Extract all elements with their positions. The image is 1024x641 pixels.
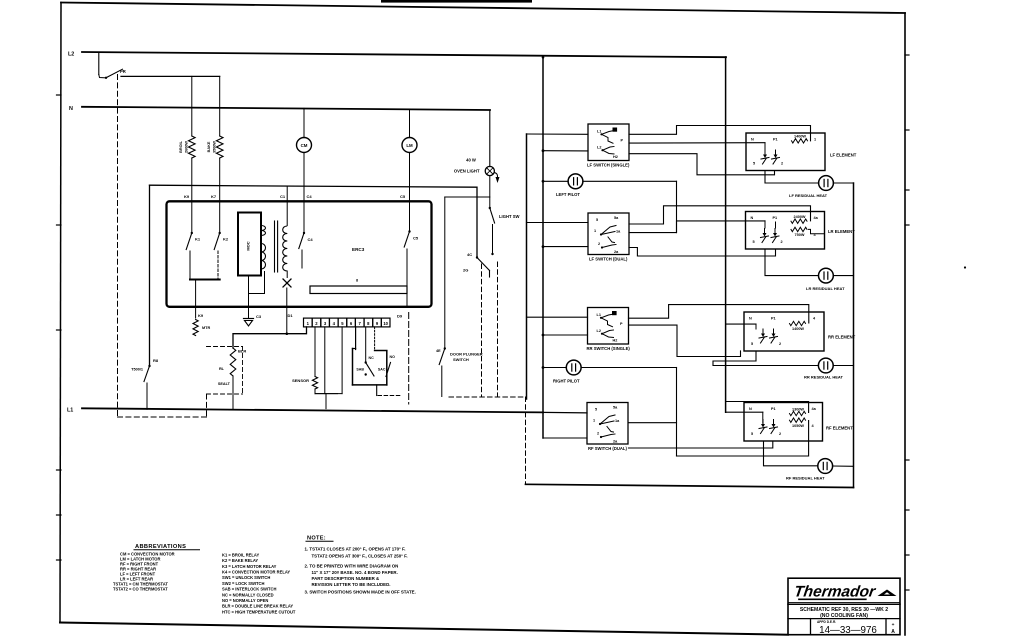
wire E2 pin4 xyxy=(809,229,825,233)
svg-text:SENSOR: SENSOR xyxy=(292,378,309,383)
svg-text:ABBREVIATIONS: ABBREVIATIONS xyxy=(135,544,186,550)
svg-text:L2: L2 xyxy=(597,146,601,150)
wire strip terminal 2 to sensor xyxy=(314,327,316,377)
svg-text:K3 = LATCH MOTOR RELAY: K3 = LATCH MOTOR RELAY xyxy=(222,564,277,569)
svg-text:C1: C1 xyxy=(280,194,286,199)
dashed chassis boundary left xyxy=(117,75,119,418)
switch S3 RR SWITCH (SINGLE) xyxy=(588,308,629,345)
svg-text:REVISION LETTER TO BE INCLUDED: REVISION LETTER TO BE INCLUDED. xyxy=(312,582,391,587)
svg-text:BROIL: BROIL xyxy=(179,140,183,152)
wire S1 entry L1 xyxy=(527,133,589,135)
svg-text:SW2 = LOCK SWITCH: SW2 = LOCK SWITCH xyxy=(222,581,264,586)
wire strip terminal 1 to BLR xyxy=(233,327,307,348)
wire lamp to light switch xyxy=(489,176,491,208)
wire S1 entry L2 xyxy=(542,149,545,152)
svg-text:SW1 = UNLOCK SWITCH: SW1 = UNLOCK SWITCH xyxy=(222,575,270,580)
svg-text:CM: CM xyxy=(301,143,308,148)
svg-text:DOOR PLUNGER: DOOR PLUNGER xyxy=(450,352,483,357)
svg-text:NC = NORMALLY CLOSED: NC = NORMALLY CLOSED xyxy=(222,592,274,597)
svg-text:RR RESIDUAL HEAT: RR RESIDUAL HEAT xyxy=(804,375,844,380)
wire S4 entry 2 xyxy=(543,437,587,439)
relay BLR coil xyxy=(230,348,236,376)
element E1 LF ELEMENT xyxy=(746,133,825,171)
wire bottom residual bus xyxy=(526,484,854,487)
top edge dark bar xyxy=(381,0,532,3)
sheet border frame xyxy=(61,3,905,14)
svg-text:MTR: MTR xyxy=(202,326,210,330)
wire E1 to residual heat xyxy=(765,171,819,184)
svg-text:C5: C5 xyxy=(413,236,419,241)
svg-text:TSTAT2 = CO THERMOSTAT: TSTAT2 = CO THERMOSTAT xyxy=(113,586,168,591)
lamp RF RESIDUAL HEAT xyxy=(818,459,833,474)
svg-text:PART DESCRIPTION NUMBER &: PART DESCRIPTION NUMBER & xyxy=(312,576,381,581)
wire E2 to residual heat xyxy=(765,249,819,276)
svg-text:2: 2 xyxy=(779,432,781,436)
wire E2 P1 riser xyxy=(775,222,777,228)
svg-text:RF SWITCH (DUAL): RF SWITCH (DUAL) xyxy=(588,446,627,451)
relay contact C5 xyxy=(408,230,410,232)
wire S1 H to element xyxy=(629,126,811,141)
svg-text:2: 2 xyxy=(779,342,781,346)
wire L2 drop to relay PR xyxy=(98,52,100,74)
svg-text:5: 5 xyxy=(751,432,753,436)
svg-text:2400W: 2400W xyxy=(793,215,805,219)
svg-text:C4: C4 xyxy=(307,194,313,199)
wire S3 P under element xyxy=(629,325,741,356)
svg-text:R8: R8 xyxy=(153,358,159,363)
thermal cutout MTR xyxy=(193,320,198,336)
lamp LR RESIDUAL HEAT xyxy=(819,268,834,283)
wire strip terminal 8 down xyxy=(365,327,367,363)
relay contact K1 xyxy=(191,232,193,234)
wire relay common xyxy=(190,279,220,281)
svg-text:4C: 4C xyxy=(467,252,472,257)
svg-text:APPD D.E.R.: APPD D.E.R. xyxy=(817,620,836,624)
wire E4 to residual heat xyxy=(764,441,818,466)
svg-text:10: 10 xyxy=(383,321,388,326)
element E3 RR ELEMENT xyxy=(744,312,824,351)
svg-text:PR: PR xyxy=(120,69,126,74)
svg-text:1400W: 1400W xyxy=(794,135,806,139)
wire strip tee to L1 xyxy=(325,394,327,409)
svg-text:H2: H2 xyxy=(613,339,618,343)
wire igniter junction xyxy=(286,332,289,335)
svg-text:P1: P1 xyxy=(773,138,778,142)
svg-text:LEFT PILOT: LEFT PILOT xyxy=(556,192,580,197)
svg-text:P1: P1 xyxy=(771,317,776,321)
switch S2 LF SWITCH (DUAL) xyxy=(588,213,629,255)
title block frame xyxy=(788,578,900,635)
svg-text:ERC3: ERC3 xyxy=(352,247,365,252)
wire N drop to oven light xyxy=(489,110,491,167)
wire S1 H2 under element xyxy=(629,154,775,175)
svg-text:Thermador: Thermador xyxy=(793,584,877,601)
wire to MTR cutout xyxy=(195,280,197,319)
switch R8 latch xyxy=(148,365,150,367)
svg-text:LF SWITCH (SINGLE): LF SWITCH (SINGLE) xyxy=(587,163,630,168)
svg-text:H2: H2 xyxy=(613,155,618,159)
svg-text:NO: NO xyxy=(390,355,396,359)
wire bus B xyxy=(542,57,544,438)
wire bus A xyxy=(526,134,528,399)
wire S4 5a to riser xyxy=(629,422,677,424)
svg-text:P1: P1 xyxy=(773,216,778,220)
dashed BLR boundary xyxy=(207,346,243,348)
svg-text:5: 5 xyxy=(753,162,755,166)
wire igniter down xyxy=(286,288,288,334)
wire L2 riser to E4 xyxy=(726,402,809,413)
wire right residual bus xyxy=(853,183,855,488)
svg-text:N: N xyxy=(751,216,754,220)
wire S2 2a under element xyxy=(629,248,776,257)
svg-text:4E: 4E xyxy=(436,349,441,353)
wire S2 1a to element N xyxy=(629,221,765,233)
svg-text:SAC: SAC xyxy=(378,368,386,372)
svg-text:TSTAT2 OPENS AT 300° F., CLOSE: TSTAT2 OPENS AT 300° F., CLOSES AT 250° … xyxy=(312,554,408,559)
svg-text:HTC = HIGH TEMPERATURE CUTOUT: HTC = HIGH TEMPERATURE CUTOUT xyxy=(222,609,296,614)
wire strip terminal 3 down xyxy=(324,327,326,394)
relay contact C4 xyxy=(303,232,305,234)
svg-text:1. TSTAT1 CLOSES AT 200° F.,: 1. TSTAT1 CLOSES AT 200° F., OPENS AT 17… xyxy=(305,547,406,552)
wire broil branch xyxy=(191,76,193,136)
svg-text:N: N xyxy=(749,317,752,321)
wire MOC bottom xyxy=(249,272,265,294)
wire sensor common xyxy=(315,393,342,395)
resistor BROIL 2600W xyxy=(189,136,196,158)
svg-text:NC: NC xyxy=(369,356,375,360)
switch HC xyxy=(491,253,493,255)
svg-text:T500/1: T500/1 xyxy=(131,368,143,372)
svg-text:2: 2 xyxy=(781,240,783,244)
transformer module MOC box xyxy=(238,213,261,276)
svg-text:2: 2 xyxy=(781,162,783,166)
svg-text:LF ELEMENT: LF ELEMENT xyxy=(830,153,857,158)
wire N bus xyxy=(82,107,490,110)
wire strip terminal 5 down xyxy=(341,327,343,394)
lamp RR RESIDUAL HEAT xyxy=(818,358,833,373)
wire S4 2a under element xyxy=(629,441,773,448)
svg-text:K2: K2 xyxy=(223,237,229,242)
svg-text:D1: D1 xyxy=(288,313,294,318)
wire S1 P to element N xyxy=(629,142,765,144)
wire E1 N riser xyxy=(764,143,766,150)
svg-text:SAB: SAB xyxy=(356,368,364,372)
control box outer wire xyxy=(150,185,478,256)
dashed riser to element common xyxy=(525,397,527,483)
stray mark xyxy=(964,266,966,268)
title block divider xyxy=(788,601,900,603)
svg-text:P1: P1 xyxy=(771,407,776,411)
element E2 LR ELEMENT xyxy=(746,212,825,250)
wire interlock stub xyxy=(376,385,378,396)
wire E3 N riser xyxy=(755,324,757,329)
svg-text:1300W: 1300W xyxy=(792,407,804,411)
lamp LEFT PILOT xyxy=(542,180,545,183)
control module ERC3 box xyxy=(167,201,432,306)
svg-text:C4: C4 xyxy=(308,237,314,242)
svg-text:RF ELEMENT: RF ELEMENT xyxy=(826,426,853,431)
junction lamp tee xyxy=(445,196,490,198)
svg-text:RL: RL xyxy=(219,367,225,371)
svg-text:K9: K9 xyxy=(198,313,204,318)
svg-text:11" X 17" 20# BASE. NO. 4 BOND: 11" X 17" 20# BASE. NO. 4 BOND PAPER. xyxy=(312,570,398,575)
dashed door switch boundary xyxy=(481,264,483,396)
wire S2 entry 5 xyxy=(527,222,589,224)
svg-text:LM: LM xyxy=(406,143,413,148)
svg-text:750W: 750W xyxy=(795,233,805,237)
svg-text:A: A xyxy=(891,629,895,635)
wire BLR to L1 xyxy=(232,376,234,409)
svg-text:LR ELEMENT: LR ELEMENT xyxy=(828,229,855,234)
lamp LF RESIDUAL HEAT xyxy=(819,176,834,191)
svg-text:+: + xyxy=(892,623,895,628)
svg-text:L2: L2 xyxy=(68,52,74,58)
wire S3 entry L2 xyxy=(542,334,545,337)
wire riser D lower xyxy=(676,368,678,457)
wire E3 N feed xyxy=(726,323,756,325)
svg-text:14—33—976: 14—33—976 xyxy=(819,625,877,636)
switch S4 RF SWITCH (DUAL) xyxy=(587,403,628,445)
svg-text:RR ELEMENT: RR ELEMENT xyxy=(828,335,856,340)
svg-text:LIGHT SW: LIGHT SW xyxy=(499,214,520,219)
transformer T1 core xyxy=(274,221,276,272)
svg-text:LF RESIDUAL HEAT: LF RESIDUAL HEAT xyxy=(789,193,828,198)
transformer T1 primary xyxy=(261,226,266,231)
title block number row xyxy=(788,618,900,620)
svg-text:L1: L1 xyxy=(597,313,601,317)
svg-text:N: N xyxy=(749,407,752,411)
svg-text:1050W: 1050W xyxy=(792,424,804,428)
wire door column xyxy=(444,197,446,348)
switch DOOR PLUNGER xyxy=(444,347,446,349)
svg-text:5: 5 xyxy=(596,218,598,222)
svg-text:N: N xyxy=(69,106,73,112)
svg-text:K1 = BROIL RELAY: K1 = BROIL RELAY xyxy=(222,552,259,557)
svg-text:2G: 2G xyxy=(463,268,468,273)
svg-text:MOC: MOC xyxy=(246,241,251,250)
svg-text:NOTE:: NOTE: xyxy=(307,536,326,542)
svg-text:3500W: 3500W xyxy=(213,141,217,153)
wire strip terminal 7 down xyxy=(355,327,357,350)
svg-text:LF SWITCH (DUAL): LF SWITCH (DUAL) xyxy=(589,257,628,262)
svg-text:K9: K9 xyxy=(184,194,190,199)
sensor coil xyxy=(312,377,317,390)
svg-text:K2 = BAKE RELAY: K2 = BAKE RELAY xyxy=(222,558,258,563)
wire S3 entry L1 xyxy=(527,316,588,318)
svg-text:1400W: 1400W xyxy=(792,327,804,331)
svg-text:L1: L1 xyxy=(597,130,601,134)
wire S2 entry 2 xyxy=(542,245,545,248)
wire broil/bake feeder xyxy=(121,75,220,77)
svg-text:40 W: 40 W xyxy=(466,158,476,163)
wire element return lower xyxy=(677,421,809,457)
wire E4 N riser xyxy=(762,412,764,423)
svg-text:RR SWITCH (SINGLE): RR SWITCH (SINGLE) xyxy=(587,346,631,351)
wire secondary top stub xyxy=(286,187,288,226)
switch SAB blade xyxy=(365,361,367,363)
wire sensor bottom xyxy=(314,389,316,394)
svg-text:2600W: 2600W xyxy=(185,141,189,153)
svg-text:RIGHT PILOT: RIGHT PILOT xyxy=(553,379,580,384)
wire L1 bus xyxy=(82,408,543,412)
wire E4 N feed xyxy=(726,411,763,413)
junction bus B top xyxy=(542,56,545,59)
svg-text:1: 1 xyxy=(593,419,595,423)
svg-text:SCHEMATIC REF 30, RES 30 —WK: SCHEMATIC REF 30, RES 30 —WK 2 xyxy=(800,607,888,613)
transformer T1 secondary xyxy=(283,226,288,234)
svg-text:L2: L2 xyxy=(597,329,601,333)
svg-text:3. SWITCH POSITIONS SHOWN MAD: 3. SWITCH POSITIONS SHOWN MADE IN OFF ST… xyxy=(305,590,416,595)
svg-text:2: 2 xyxy=(598,242,600,246)
relay contact K2 xyxy=(219,232,221,234)
interlock switch enclosure SAB xyxy=(353,348,356,350)
lamp RIGHT PILOT xyxy=(542,366,545,369)
wire L1 to RF switch pin 1 xyxy=(543,411,587,414)
svg-text:N: N xyxy=(751,138,754,142)
svg-text:2. TO BE PRINTED WITH WIRE DI: 2. TO BE PRINTED WITH WIRE DIAGRAM ON xyxy=(305,563,399,568)
motor CM xyxy=(303,108,305,137)
svg-text:C3: C3 xyxy=(256,314,262,319)
terminal strip TB1 xyxy=(304,318,313,327)
wire broil to relay K1 xyxy=(191,158,193,233)
svg-text:5: 5 xyxy=(751,342,753,346)
wire S3 H to element xyxy=(629,305,809,323)
svg-text:2: 2 xyxy=(597,432,599,436)
switch S1 LF SWITCH (SINGLE) xyxy=(588,124,629,161)
relay contact PR xyxy=(105,77,107,79)
wire S2 5a to element xyxy=(629,206,811,224)
svg-text:BLR = DOUBLE LINE BREAK RELAY: BLR = DOUBLE LINE BREAK RELAY xyxy=(222,604,293,609)
svg-text:L1: L1 xyxy=(67,408,73,414)
svg-text:D9: D9 xyxy=(397,314,403,319)
dashed interlock link xyxy=(378,395,401,397)
svg-text:5: 5 xyxy=(753,240,755,244)
wire L2 bus xyxy=(82,52,726,57)
element E4 RF ELEMENT xyxy=(744,403,823,442)
svg-text:C5: C5 xyxy=(400,194,406,199)
svg-text:K4 = CONVECTION MOTOR RELAY: K4 = CONVECTION MOTOR RELAY xyxy=(222,570,290,575)
svg-text:K7: K7 xyxy=(211,194,217,199)
svg-text:SEALT: SEALT xyxy=(218,382,231,386)
switch SAC blade xyxy=(386,363,391,377)
wire L2 riser right xyxy=(725,57,727,412)
ground xyxy=(248,294,250,319)
wire strip terminal 9 dotted xyxy=(374,327,376,351)
svg-text:5: 5 xyxy=(595,408,597,412)
wire lamp arrow xyxy=(494,173,497,178)
wire bake branch xyxy=(219,76,221,136)
svg-text:LR RESIDUAL HEAT: LR RESIDUAL HEAT xyxy=(806,286,845,291)
wire E2 N riser xyxy=(764,221,766,228)
switch LIGHT SW xyxy=(489,207,491,209)
wire control box left leg xyxy=(149,185,151,365)
border tick marks xyxy=(57,94,62,96)
svg-text:8: 8 xyxy=(356,279,358,283)
svg-text:1: 1 xyxy=(814,138,816,142)
motor LM xyxy=(409,110,411,138)
dashed latch motor column xyxy=(408,313,410,405)
wire bake to relay K2 xyxy=(219,158,221,233)
wire E3 to residual heat xyxy=(713,351,818,366)
igniter flare xyxy=(286,271,288,278)
svg-text:SWITCH: SWITCH xyxy=(453,357,469,362)
resistor BAKE 3500W xyxy=(216,136,223,158)
svg-text:1: 1 xyxy=(594,229,596,233)
svg-text:RF RESIDUAL HEAT: RF RESIDUAL HEAT xyxy=(786,476,825,481)
svg-text:SAB = INTERLOCK SWITCH: SAB = INTERLOCK SWITCH xyxy=(222,587,277,592)
svg-text:NO = NORMALLY OPEN: NO = NORMALLY OPEN xyxy=(222,598,268,603)
svg-text:BAKE: BAKE xyxy=(207,141,211,152)
svg-text:K1: K1 xyxy=(195,237,201,242)
wire riser D upper xyxy=(676,181,678,232)
svg-text:OVEN LIGHT: OVEN LIGHT xyxy=(454,168,480,173)
